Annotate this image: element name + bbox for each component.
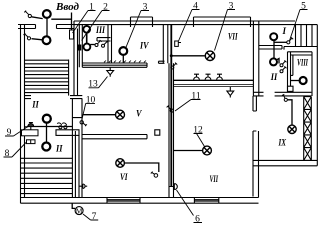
svg-text:11: 11 (191, 92, 200, 102)
wall central vertical (169, 63, 174, 197)
wall hall shaft (72, 99, 82, 198)
wall right outer (316, 25, 318, 166)
wall room III left (79, 25, 82, 68)
wire lamp IX (288, 100, 292, 125)
wire junction circles (86, 25, 88, 44)
socket trio a (194, 74, 200, 80)
wire ring I down (273, 40, 275, 58)
leader 11 (175, 100, 191, 112)
svg-text:7: 7 (92, 212, 97, 222)
room labels (31, 25, 308, 184)
socket block 8 (27, 140, 36, 144)
wall bar at IV door (159, 61, 165, 63)
stairs upper treads (25, 60, 69, 92)
svg-text:IX: IX (278, 138, 287, 148)
lamp ceiling rose hall lower (42, 143, 50, 151)
leader 12 (197, 134, 205, 147)
switch 4 central wall (175, 41, 181, 46)
junction box entry upper (83, 26, 90, 33)
wire hall vertical (46, 123, 48, 142)
wire lamp VII bottom (174, 150, 203, 152)
wall V-VI stub (155, 130, 160, 135)
socket trio b (205, 74, 211, 80)
svg-text:8: 8 (5, 149, 10, 159)
wall bottom main (21, 198, 259, 204)
lamp ceiling rose porch upper (43, 10, 51, 18)
svg-text:VI: VI (120, 172, 128, 182)
wall top main (74, 21, 317, 25)
svg-text:VII: VII (210, 174, 219, 184)
switch pair hall b (62, 123, 67, 129)
leader lines (12, 10, 300, 221)
lamp ceiling rose hall upper (43, 115, 51, 123)
svg-text:VII: VII (228, 32, 238, 42)
wall left annex (21, 25, 25, 204)
wall III-IV bottom (82, 63, 147, 67)
switch room VI (151, 172, 158, 178)
wall IV-VII vertical (163, 25, 168, 64)
wire lamp V (84, 114, 116, 116)
wall stair-house divider (74, 21, 78, 96)
wall VII-I vertical (253, 21, 258, 96)
svg-text:12: 12 (193, 126, 203, 136)
switch 11 central wall (167, 106, 174, 113)
socket 6 room VII (170, 184, 178, 190)
junction dot A (170, 54, 173, 57)
wire switch to lamp top porch (32, 17, 43, 19)
distribution board (77, 45, 81, 51)
leader 2 (82, 11, 102, 41)
wire ring II to switches (277, 59, 279, 64)
pendant lamp hallway right (227, 87, 234, 98)
socket trio c (217, 74, 223, 80)
wire lamp VII top (172, 55, 205, 57)
switch pair hall a (57, 123, 62, 129)
leader 5 (290, 10, 301, 41)
leader 8 (12, 143, 26, 158)
lamp X room IX (288, 125, 296, 133)
lamp ring room I (270, 33, 277, 40)
entry sleeve (70, 30, 74, 39)
window bottom 1 (107, 198, 140, 204)
switch 5 right (287, 37, 294, 44)
door jamb VIII (288, 86, 294, 91)
switch pair entry a (95, 40, 102, 47)
wire hall horizontal (27, 126, 72, 128)
svg-text:IV: IV (139, 41, 149, 51)
svg-text:3: 3 (143, 3, 148, 13)
svg-text:M: M (76, 206, 83, 215)
lamp ring room II right (270, 58, 277, 65)
wire motor (72, 203, 75, 208)
wall right section horizontal (253, 92, 311, 96)
leader 3 (126, 11, 142, 49)
lamp ring room VIII (300, 77, 307, 84)
wall hall bar (56, 130, 79, 136)
wire switch to lamp lower porch (32, 39, 43, 40)
lamp X room VII bottom (203, 146, 212, 155)
lamp X room V (116, 110, 125, 119)
leader 13 (99, 77, 108, 88)
stairs right X-braced (304, 97, 312, 161)
wire vvod riser (71, 13, 73, 31)
switch pair right b (280, 66, 287, 72)
switch pair right a (280, 60, 287, 66)
wall stub left (25, 96, 32, 99)
wall III-IV divider (108, 25, 112, 63)
svg-text:10: 10 (86, 95, 96, 105)
wall porch top (18, 25, 74, 29)
stair stringer line (68, 60, 70, 96)
switch pair entry b (102, 41, 109, 48)
wall stair cap (70, 96, 82, 99)
switch room IX (282, 94, 287, 101)
switch room V (80, 121, 87, 126)
wall I-II divider (259, 46, 282, 50)
stairs lower treads (21, 158, 73, 193)
leader 7 (83, 214, 91, 220)
leader 10 (82, 103, 86, 120)
leader 3b (215, 10, 228, 51)
socket 9 (22, 123, 39, 136)
wire ring I to switch5 (274, 41, 287, 43)
svg-text:I: I (282, 26, 287, 36)
window top 1 (131, 17, 153, 27)
svg-text:5: 5 (301, 2, 306, 12)
wall right bottom (253, 160, 317, 165)
switch central wall upper (171, 63, 177, 69)
junction box entry lower (84, 44, 91, 51)
leader 6 (177, 190, 194, 216)
wall VII-IX vertical (253, 96, 259, 198)
svg-text:V: V (136, 109, 142, 119)
lamp ceiling rose porch lower (43, 36, 51, 44)
svg-text:4: 4 (193, 2, 198, 12)
leader 4 (179, 10, 193, 42)
svg-text:3: 3 (229, 2, 234, 12)
lamp room IV (119, 47, 127, 63)
svg-text:2: 2 (103, 3, 108, 13)
wall VII sockets horizontal (174, 80, 253, 86)
wall VIII left (288, 52, 313, 96)
svg-text:III: III (95, 25, 105, 35)
wall V-VI (82, 135, 147, 139)
wall lintel room III (97, 38, 111, 41)
switch porch upper (24, 11, 31, 18)
svg-text:9: 9 (7, 128, 12, 138)
socket room VI (79, 184, 87, 188)
pendant lamp 13 (107, 67, 114, 76)
wire central riser (170, 25, 172, 187)
wire porch feed (51, 18, 71, 20)
svg-text:13: 13 (88, 80, 98, 90)
svg-text:II: II (55, 144, 63, 154)
wire ring VIII (291, 80, 300, 82)
window bottom 2 (194, 198, 218, 204)
switch porch lower (24, 33, 31, 40)
svg-text:II: II (31, 100, 39, 110)
svg-text:6: 6 (195, 215, 200, 225)
motor M (75, 206, 83, 215)
wire lamp VI (125, 163, 159, 172)
stairs top-right hatch (284, 25, 317, 50)
leader 1 (73, 11, 89, 34)
wire porch lamps vertical (46, 19, 48, 37)
svg-text:Ввод: Ввод (55, 2, 79, 13)
svg-text:VIII: VIII (297, 58, 308, 68)
leader 9 (14, 127, 28, 136)
wall VIII closet hook (291, 55, 293, 75)
svg-text:II: II (270, 72, 278, 82)
lamp X room VII top (205, 51, 214, 60)
lamp X room VI (116, 159, 125, 168)
window top 2 (194, 17, 251, 27)
svg-text:1: 1 (89, 3, 94, 13)
partition hatch ticks (104, 61, 146, 63)
wire to entry switches (90, 44, 95, 46)
